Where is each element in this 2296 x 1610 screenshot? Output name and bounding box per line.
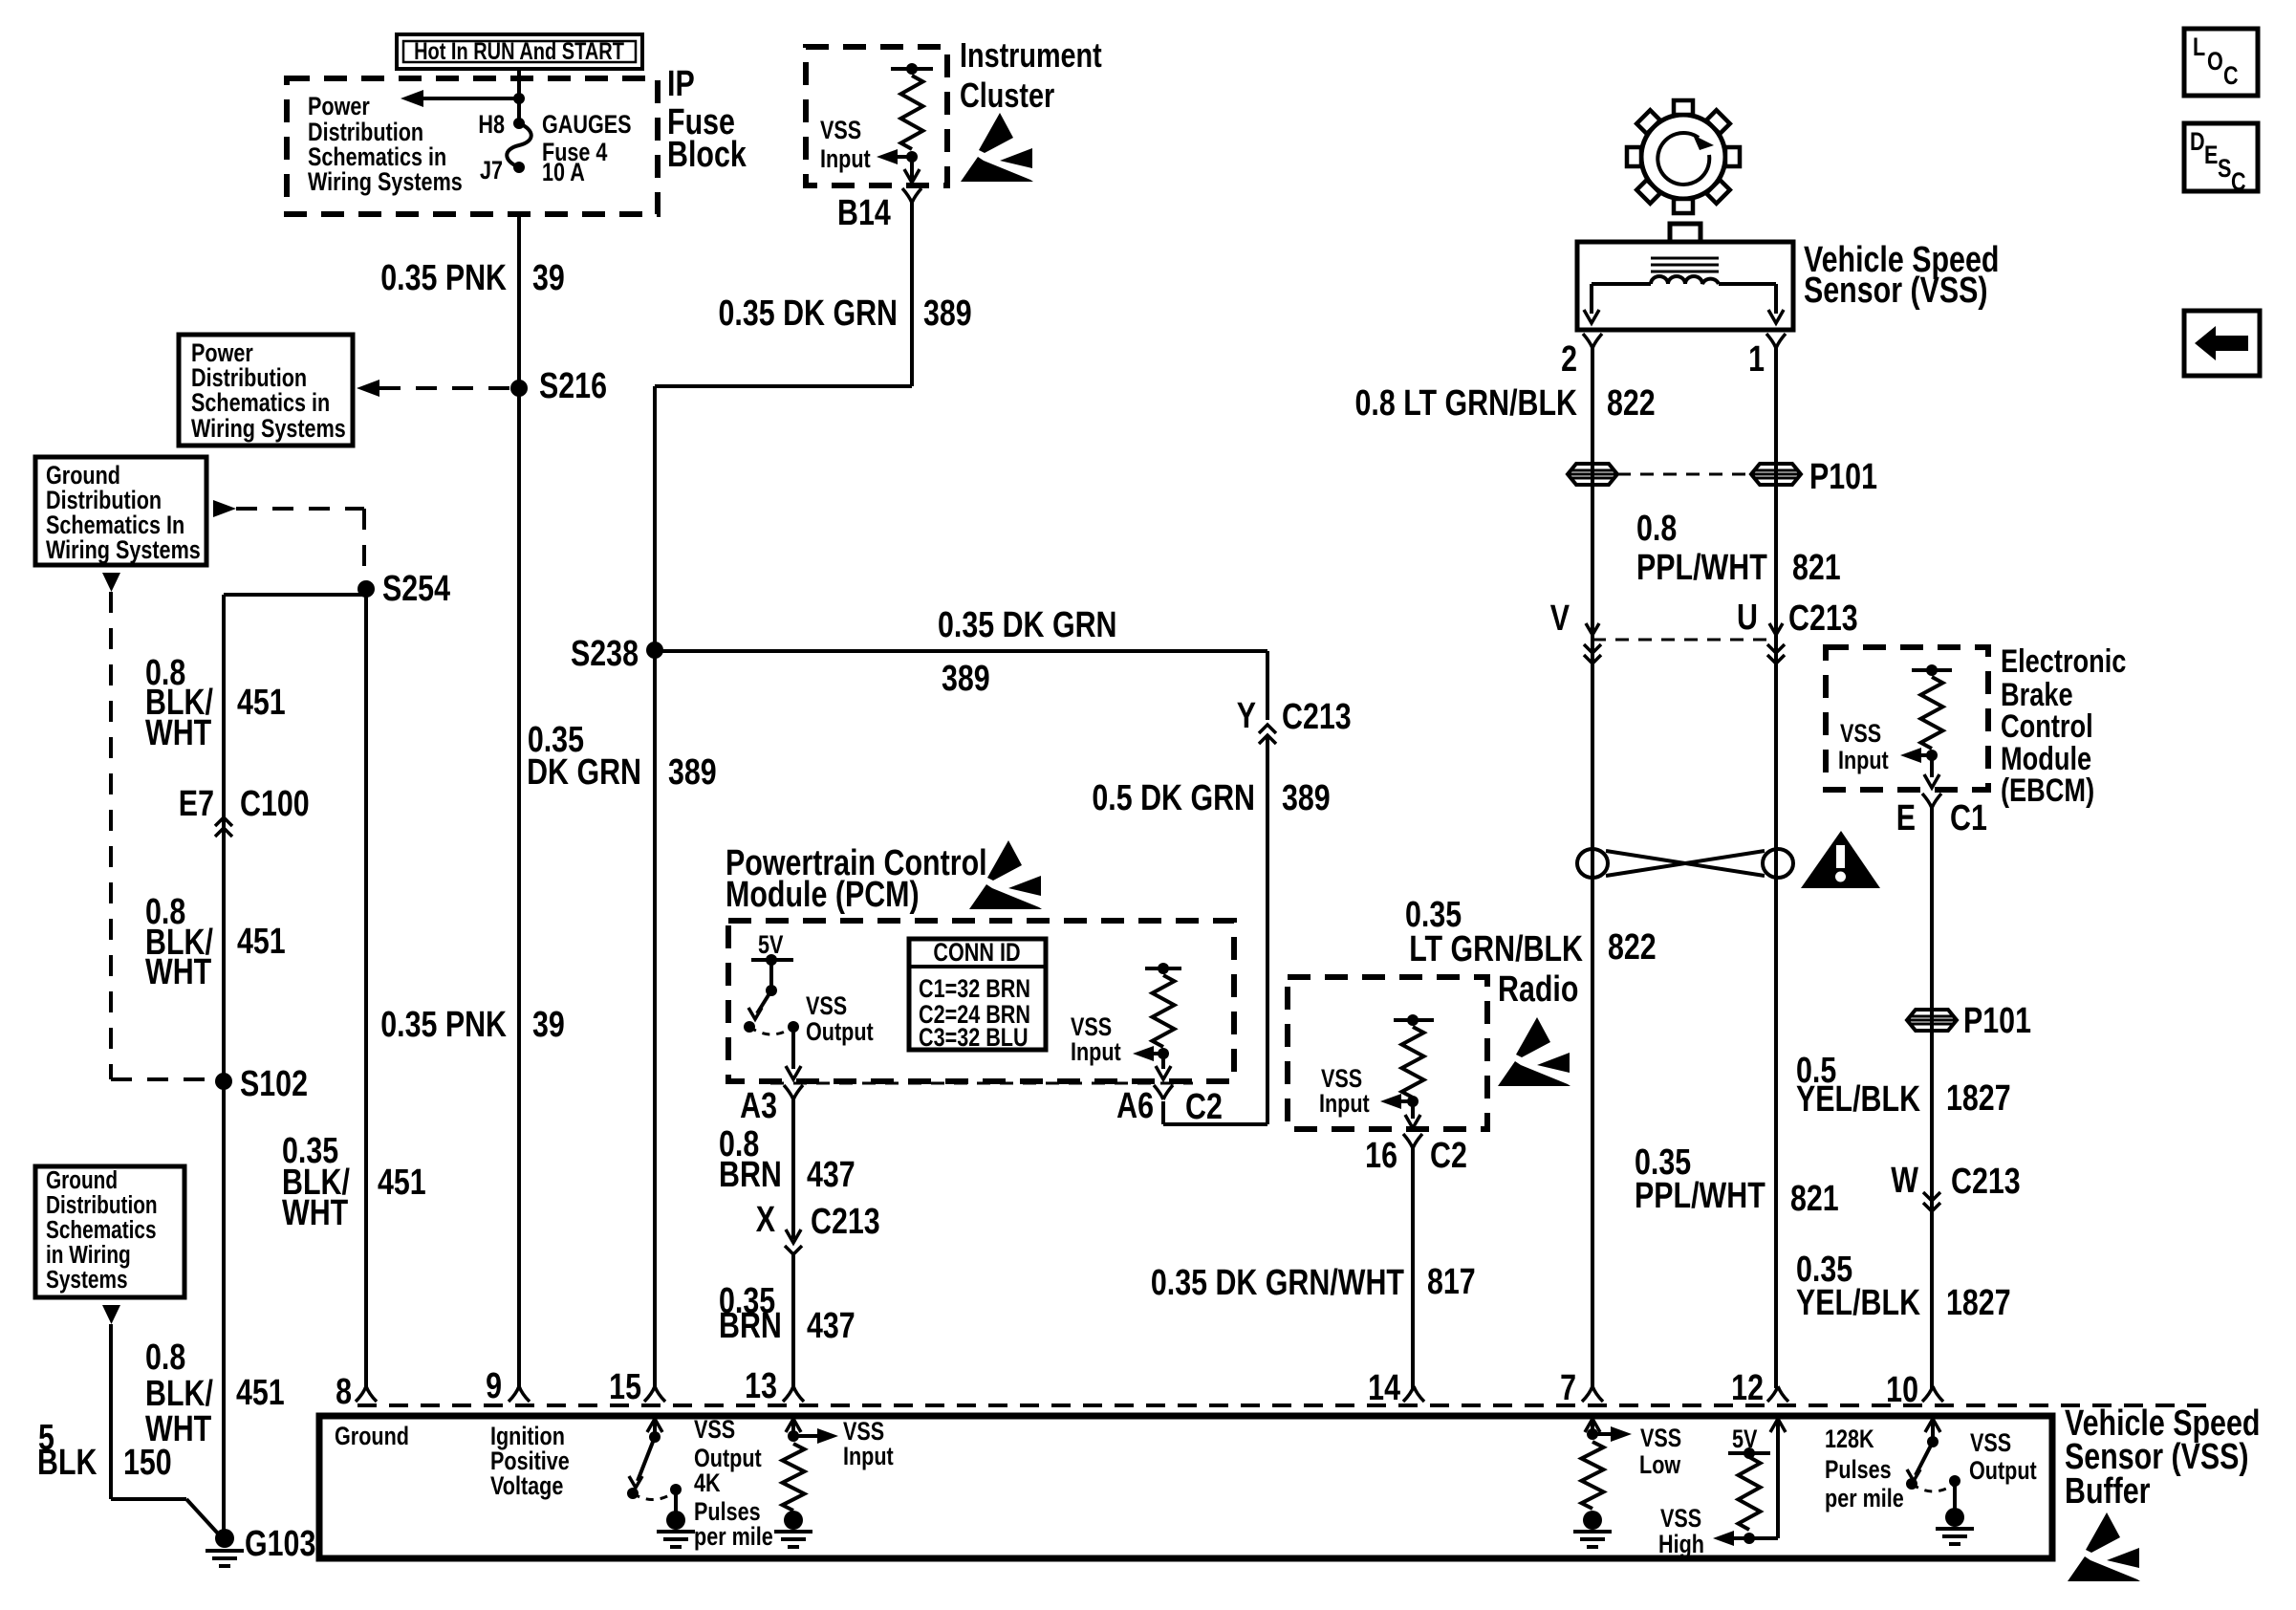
svg-text:Radio: Radio (1498, 969, 1578, 1010)
svg-text:822: 822 (1607, 383, 1656, 424)
switch arm PCM (766, 985, 777, 996)
connector P101 left (1568, 464, 1617, 485)
pin 16 connector (1403, 1134, 1422, 1148)
wire 821 pin1 down (1774, 348, 1778, 1388)
pin A3 connector (784, 1085, 803, 1099)
svg-text:J7: J7 (480, 157, 503, 185)
svg-text:451: 451 (378, 1163, 426, 1203)
ground G103 (215, 1529, 234, 1548)
svg-text:S238: S238 (571, 634, 639, 674)
svg-text:YEL/BLK: YEL/BLK (1796, 1079, 1920, 1120)
svg-text:BLK/: BLK/ (145, 1374, 213, 1414)
wire 39 PNK S216 to pin 9 (517, 388, 521, 1388)
junction S102 (215, 1073, 232, 1090)
fuse F4 GAUGES symbol (513, 118, 525, 129)
switch dashed arc PCM (749, 1027, 793, 1034)
power distribution reference box (179, 335, 353, 446)
pin A6 connector (1154, 1085, 1173, 1099)
svg-text:VSS: VSS (1970, 1429, 2011, 1458)
connector C213 U (1769, 623, 1783, 635)
resistor VSS Input EBCM (1912, 668, 1952, 672)
svg-text:Sensor (VSS): Sensor (VSS) (1804, 271, 1988, 311)
dashed line to S102 (109, 592, 113, 1079)
svg-text:0.35 DK GRN: 0.35 DK GRN (719, 294, 898, 334)
pin 1 connector (1766, 334, 1786, 348)
svg-text:Input: Input (1071, 1038, 1121, 1067)
pin 12 internal 5V resistor (1770, 1419, 1786, 1432)
svg-text:Y: Y (1237, 696, 1256, 736)
dashed arrow S216 to power distribution (379, 386, 519, 390)
svg-text:(EBCM): (EBCM) (2001, 772, 2094, 809)
wire 451 BLK/WHT S254 to pin 8 (364, 589, 368, 1388)
svg-text:Block: Block (667, 135, 747, 175)
svg-text:0.8: 0.8 (1636, 509, 1677, 549)
svg-text:H8: H8 (478, 111, 505, 140)
CONN ID table (909, 939, 1046, 1050)
esd symbol PCM (987, 840, 1022, 881)
svg-text:0.35 DK GRN: 0.35 DK GRN (938, 605, 1116, 645)
connector P101 right (1751, 464, 1801, 485)
svg-text:Systems: Systems (46, 1266, 128, 1294)
svg-text:128K: 128K (1825, 1425, 1874, 1454)
IP fuse block dashed box (287, 78, 658, 214)
svg-text:A3: A3 (740, 1086, 777, 1126)
twisted pair symbol (1577, 849, 1608, 878)
pin B14 connector Y (902, 188, 921, 203)
svg-text:Input: Input (820, 145, 871, 174)
dashed link P101 (1617, 473, 1751, 476)
svg-text:0.5 DK GRN: 0.5 DK GRN (1092, 778, 1255, 818)
svg-text:817: 817 (1427, 1262, 1476, 1302)
wire 389 DK GRN S238 to Y C213 (655, 649, 1267, 653)
svg-text:WHT: WHT (145, 713, 211, 753)
connector C213 W (1923, 1192, 1940, 1201)
svg-text:0.35 DK GRN/WHT: 0.35 DK GRN/WHT (1151, 1263, 1404, 1303)
svg-text:Wiring Systems: Wiring Systems (191, 415, 346, 444)
svg-text:C2: C2 (1430, 1136, 1467, 1176)
svg-text:Wiring Systems: Wiring Systems (308, 168, 463, 197)
svg-text:W: W (1891, 1161, 1918, 1201)
svg-text:Cluster: Cluster (960, 76, 1054, 115)
svg-text:14: 14 (1368, 1368, 1400, 1408)
resistor VSS Input radio (1394, 1018, 1434, 1022)
svg-text:Output: Output (1969, 1457, 2037, 1486)
pin 7 internal resistor VSS Low (1585, 1419, 1600, 1432)
down arrow radio (1411, 1101, 1415, 1119)
svg-text:Power: Power (308, 93, 370, 121)
svg-text:Ground: Ground (46, 1166, 118, 1194)
label box Hot In RUN And START (397, 34, 642, 69)
arrow to power distribution (412, 97, 519, 100)
svg-text:Input: Input (1319, 1090, 1370, 1119)
svg-text:High: High (1658, 1531, 1704, 1559)
svg-text:WHT: WHT (145, 1409, 211, 1449)
connector P101 yel/blk (1907, 1010, 1957, 1031)
svg-text:VSS: VSS (820, 117, 861, 145)
VSS sensor box (1577, 242, 1793, 330)
svg-text:Ground: Ground (335, 1423, 409, 1451)
svg-text:PPL/WHT: PPL/WHT (1636, 548, 1767, 588)
svg-text:1827: 1827 (1946, 1078, 2011, 1119)
svg-text:C213: C213 (1282, 697, 1352, 737)
svg-text:10 A: 10 A (542, 159, 585, 187)
svg-text:B14: B14 (837, 193, 891, 233)
svg-text:V: V (1550, 598, 1570, 639)
svg-text:821: 821 (1790, 1179, 1839, 1219)
down arrow EBCM (1930, 755, 1934, 777)
svg-text:VSS: VSS (1660, 1505, 1701, 1534)
svg-text:P101: P101 (1963, 1001, 2031, 1041)
wire down to connector Y C213 (1266, 651, 1269, 720)
svg-text:Schematics: Schematics (46, 1216, 157, 1244)
svg-text:BLK: BLK (37, 1443, 97, 1483)
wire 1827 YEL/BLK E down (1930, 808, 1934, 1388)
svg-text:G103: G103 (245, 1524, 315, 1564)
junction S254 (357, 580, 375, 598)
svg-text:Input: Input (843, 1443, 894, 1471)
svg-text:E7: E7 (179, 784, 214, 824)
svg-text:S216: S216 (539, 366, 607, 406)
svg-text:E: E (1896, 798, 1916, 838)
svg-text:15: 15 (609, 1367, 641, 1407)
svg-text:0.8: 0.8 (145, 1338, 185, 1378)
wire 817 DK GRN/WHT 16 to pin 14 (1411, 1148, 1415, 1388)
svg-text:4K: 4K (694, 1469, 721, 1498)
back arrow box (2184, 311, 2260, 376)
svg-text:Instrument: Instrument (960, 35, 1102, 75)
svg-text:per mile: per mile (1825, 1485, 1904, 1513)
svg-text:C2: C2 (1185, 1087, 1223, 1127)
down arrow to B14 (910, 157, 914, 181)
wire 451 to G103 (222, 1081, 226, 1538)
pin 8 foot (356, 1386, 377, 1402)
gear icon VSS (1641, 115, 1725, 199)
svg-text:822: 822 (1608, 927, 1657, 968)
svg-text:Voltage: Voltage (490, 1472, 563, 1501)
connector E7 C100 chevrons (215, 817, 232, 826)
svg-text:39: 39 (532, 1005, 565, 1045)
svg-text:P101: P101 (1809, 457, 1877, 497)
arrow VSS Input instrument cluster (887, 155, 912, 159)
svg-text:C: C (2223, 62, 2239, 91)
svg-text:Hot In RUN And START: Hot In RUN And START (414, 38, 624, 65)
svg-text:VSS: VSS (1840, 720, 1881, 749)
wire 150 BLK to G103 (109, 1324, 113, 1499)
wire 451 BLK/WHT down from S254 branch (222, 595, 226, 1081)
sensor internal leads (1592, 282, 1651, 286)
pin 13 foot (783, 1386, 804, 1402)
svg-text:389: 389 (1282, 778, 1331, 818)
DESC box (2184, 123, 2258, 191)
junction S216 (510, 380, 528, 397)
connector X C213 (786, 1229, 801, 1243)
warning triangle (1801, 831, 1880, 888)
svg-text:BRN: BRN (719, 1155, 782, 1195)
pin 9 foot (509, 1386, 530, 1402)
radio dashed box (1288, 977, 1487, 1129)
svg-text:437: 437 (807, 1306, 856, 1346)
dashed line C213 (1592, 639, 1776, 642)
svg-text:S254: S254 (382, 569, 450, 609)
svg-text:Schematics in: Schematics in (191, 389, 330, 418)
wire corner B14 to S238 branch (655, 384, 912, 388)
svg-text:C100: C100 (240, 784, 310, 824)
wire from Hot In RUN to fuse H8 (517, 69, 521, 123)
ground distribution reference box top (35, 457, 206, 565)
svg-text:GAUGES: GAUGES (542, 111, 632, 140)
VSS Output stem and arrow PCM (791, 1027, 795, 1069)
pin 12 foot (1767, 1386, 1788, 1402)
svg-text:5V: 5V (1732, 1425, 1758, 1454)
connector C213 V (1586, 623, 1599, 635)
svg-text:PPL/WHT: PPL/WHT (1635, 1176, 1765, 1216)
svg-text:C1=32 BRN: C1=32 BRN (919, 975, 1030, 1004)
svg-text:8: 8 (336, 1372, 352, 1412)
dashed arrow ground distribution to S254 (213, 500, 236, 517)
svg-text:Wiring Systems: Wiring Systems (46, 536, 201, 565)
svg-text:Electronic: Electronic (2001, 642, 2126, 680)
wire 389 0.5 DK GRN down to A6 (1266, 737, 1269, 1124)
svg-text:YEL/BLK: YEL/BLK (1796, 1283, 1920, 1323)
svg-text:Module (PCM): Module (PCM) (726, 875, 920, 915)
triangle to ground schematics (102, 573, 120, 592)
svg-text:Buffer: Buffer (2065, 1471, 2151, 1512)
svg-text:389: 389 (668, 752, 717, 793)
svg-text:Input: Input (1838, 747, 1889, 775)
svg-text:1827: 1827 (1946, 1283, 2011, 1323)
svg-text:13: 13 (745, 1366, 777, 1406)
pin E connector (1922, 794, 1941, 808)
wire 389 DK GRN S238 to pin 15 (653, 650, 657, 1388)
svg-text:Pulses: Pulses (1825, 1456, 1892, 1485)
wire 389 DK GRN from B14 (910, 203, 914, 386)
resistor in instrument cluster (891, 67, 933, 71)
svg-text:VSS: VSS (806, 992, 847, 1021)
svg-text:BRN: BRN (719, 1306, 782, 1346)
PCM pin row dashed (770, 1082, 1193, 1085)
svg-text:2: 2 (1561, 339, 1577, 380)
svg-text:451: 451 (237, 683, 286, 723)
svg-text:10: 10 (1886, 1370, 1918, 1410)
svg-text:C213: C213 (811, 1202, 880, 1242)
svg-text:S102: S102 (240, 1064, 308, 1104)
esd symbol radio (1516, 1017, 1550, 1057)
pin 15 internal switch (647, 1419, 662, 1432)
svg-text:9: 9 (486, 1366, 502, 1406)
svg-text:C1: C1 (1950, 798, 1987, 838)
svg-text:1: 1 (1748, 339, 1765, 380)
arrow VSS Input radio (1392, 1099, 1413, 1103)
resistor VSS Input PCM (1145, 967, 1181, 970)
svg-text:821: 821 (1792, 548, 1841, 588)
svg-text:437: 437 (807, 1155, 856, 1195)
down arrow PCM A6 (1161, 1054, 1165, 1069)
svg-text:A6: A6 (1116, 1086, 1154, 1126)
svg-text:7: 7 (1560, 1368, 1576, 1408)
arrow VSS Input EBCM (1912, 753, 1932, 757)
pin 15 foot (644, 1386, 665, 1402)
pin 2 connector (1583, 334, 1602, 348)
svg-text:39: 39 (532, 258, 565, 298)
svg-text:in Wiring: in Wiring (46, 1241, 131, 1269)
svg-text:0.8 LT GRN/BLK: 0.8 LT GRN/BLK (1355, 383, 1578, 424)
transformer core lines (1651, 257, 1719, 260)
svg-text:389: 389 (923, 294, 972, 334)
svg-text:Control: Control (2001, 707, 2093, 745)
svg-text:WHT: WHT (282, 1193, 348, 1233)
VSS sensor neck (1670, 224, 1700, 242)
svg-text:WHT: WHT (145, 952, 211, 992)
esd symbol instrument cluster (979, 113, 1013, 153)
svg-text:O: O (2207, 48, 2223, 76)
svg-text:C213: C213 (1951, 1162, 2021, 1202)
svg-text:389: 389 (942, 659, 990, 699)
svg-text:E: E (2204, 141, 2218, 170)
svg-text:0.35 PNK: 0.35 PNK (380, 1005, 507, 1045)
svg-text:12: 12 (1731, 1368, 1764, 1408)
svg-text:X: X (756, 1200, 775, 1240)
svg-text:Distribution: Distribution (46, 1191, 158, 1219)
svg-text:VSS: VSS (1640, 1425, 1681, 1453)
wire 39 PNK fuse to S216 (517, 214, 521, 388)
junction S238 (646, 642, 663, 659)
wire 437 BRN A3 to X (791, 1099, 795, 1239)
svg-text:IP: IP (667, 64, 695, 104)
pin 14 foot (1403, 1386, 1424, 1402)
svg-text:16: 16 (1365, 1136, 1397, 1176)
svg-text:0.35 PNK: 0.35 PNK (380, 258, 507, 298)
svg-text:D: D (2190, 128, 2205, 157)
svg-text:CONN ID: CONN ID (933, 939, 1020, 968)
svg-text:L: L (2193, 33, 2205, 62)
connector Y C213 chevrons (1259, 725, 1276, 733)
svg-text:U: U (1737, 598, 1758, 638)
instrument cluster dashed box (806, 47, 947, 185)
svg-text:S: S (2218, 155, 2231, 184)
ground distribution reference box bottom (35, 1166, 184, 1297)
wire 437 BRN X to pin 13 (791, 1254, 795, 1388)
arrow VSS Input PCM (1144, 1052, 1163, 1055)
PCM dashed box (728, 921, 1234, 1081)
svg-text:C: C (2231, 168, 2246, 197)
bus dashed line (357, 1403, 2210, 1407)
triangle below ground box (102, 1305, 120, 1324)
svg-text:Output: Output (806, 1018, 874, 1047)
LOC box (2184, 29, 2258, 96)
svg-text:C213: C213 (1788, 598, 1858, 639)
wire S254 branch left (364, 589, 368, 595)
svg-text:per mile: per mile (694, 1523, 773, 1552)
esd symbol buffer (2086, 1512, 2120, 1553)
svg-text:451: 451 (236, 1373, 285, 1413)
svg-text:451: 451 (237, 922, 286, 962)
svg-text:LT GRN/BLK: LT GRN/BLK (1409, 929, 1583, 969)
pin 13 internal resistor (786, 1419, 801, 1432)
svg-text:C3=32 BLU: C3=32 BLU (919, 1024, 1029, 1053)
pin 7 foot (1582, 1386, 1603, 1402)
svg-text:VSS: VSS (694, 1416, 735, 1445)
pin 10 internal switch 128K (1925, 1419, 1940, 1432)
svg-text:Low: Low (1639, 1451, 1681, 1480)
svg-text:DK GRN: DK GRN (527, 752, 641, 793)
vehicle speed sensor buffer box (319, 1416, 2052, 1558)
pin 10 foot (1922, 1386, 1943, 1402)
wire 822 LT GRN/BLK pin2 down (1591, 348, 1594, 1388)
EBCM dashed box (1826, 647, 1988, 790)
sensor coil (1651, 276, 1719, 284)
